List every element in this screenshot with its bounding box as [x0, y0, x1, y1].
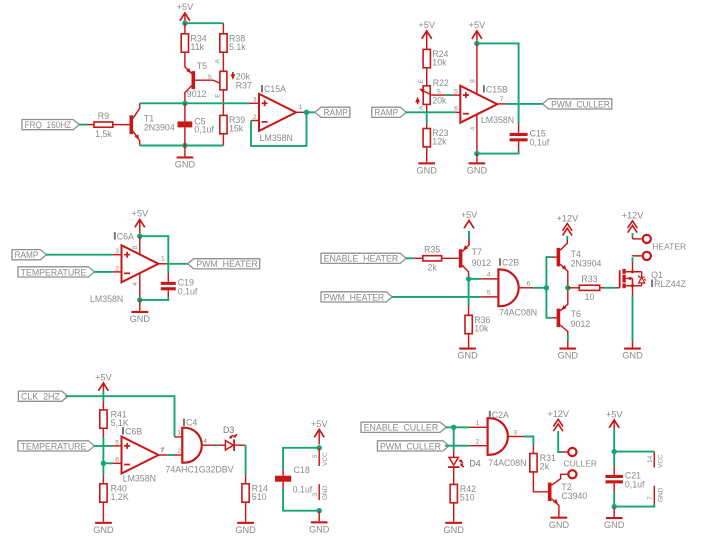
svg-text:7: 7	[160, 448, 164, 455]
wire pin5 net	[446, 94, 452, 96]
wire pin4 lead	[476, 114, 478, 153]
svg-text:20k: 20k	[432, 96, 447, 106]
wire pin6 lead IC6B	[113, 462, 122, 464]
wire pin4 lead IC2B	[481, 278, 498, 280]
transistor T2 body	[548, 483, 558, 505]
wire +12V to CULLER	[558, 431, 562, 452]
svg-text:10k: 10k	[432, 58, 447, 68]
junction gate out	[544, 285, 549, 290]
svg-text:FRQ_160HZ: FRQ_160HZ	[25, 120, 72, 130]
svg-text:9012: 9012	[472, 258, 492, 268]
power +5V (block1)	[177, 2, 194, 21]
wire D3 cathode lead	[235, 444, 246, 446]
power +12V (HEATER)	[622, 211, 645, 233]
wire GND lead (IC15B)	[476, 154, 478, 163]
wire C5 bottom lead	[184, 127, 186, 145]
svg-text:GND: GND	[443, 525, 464, 535]
wire C15 top lead	[518, 124, 520, 133]
wire T5 collector	[185, 86, 192, 104]
label IC4	[183, 418, 197, 428]
ground (R23)	[416, 162, 437, 175]
net flag PWM_CULLER (out)	[543, 99, 612, 110]
wire +12V to HEATER	[632, 233, 634, 237]
svg-text:1: 1	[177, 430, 181, 437]
svg-text:S: S	[208, 74, 213, 81]
wire GND lead (block1)	[184, 146, 186, 157]
svg-text:C18: C18	[294, 465, 310, 475]
wire Q1 gate lead	[616, 287, 620, 289]
wire wiper to pin5	[432, 94, 446, 96]
svg-text:+5V: +5V	[131, 209, 148, 219]
wire C19 top lead	[167, 273, 169, 282]
junction D4 branch	[451, 425, 456, 430]
wire divider to pin6	[103, 462, 112, 464]
resistor R40	[100, 483, 129, 502]
wire R33 right lead	[600, 287, 604, 289]
wire gnd lead (C21)	[613, 507, 615, 517]
wire GND lead (IC6A)	[139, 300, 141, 311]
connector HEATER pin 2	[643, 252, 651, 260]
wire pin2 lead IC6A	[112, 271, 121, 273]
svg-text:PWM_HEATER: PWM_HEATER	[324, 292, 385, 302]
power +12V (CULLER)	[547, 409, 570, 431]
wire Q1 source down	[632, 286, 634, 297]
wire T2 collector	[552, 474, 568, 485]
wire C19 to gnd	[140, 297, 169, 300]
svg-text:510: 510	[460, 493, 475, 503]
wire gate to D3	[215, 444, 218, 446]
svg-text:4: 4	[469, 127, 476, 131]
wire FRQ to R9	[79, 124, 88, 126]
svg-text:2: 2	[177, 448, 181, 455]
label IC15A	[261, 84, 286, 94]
wire R24 to R22	[426, 68, 428, 86]
wire RAMP to pin3	[46, 254, 113, 256]
wire pin5 lead IC2B	[481, 296, 498, 298]
resistor R38	[220, 33, 246, 52]
wire R36 top lead	[468, 306, 470, 315]
svg-text:GND: GND	[130, 314, 151, 324]
wire gnd bottom rail	[140, 145, 224, 147]
net flag RAMP (out)	[315, 107, 350, 118]
ground (IC6A)	[130, 311, 151, 324]
svg-text:5: 5	[487, 290, 491, 297]
ground (R42)	[443, 522, 464, 535]
wire T7 emitter	[462, 231, 469, 252]
junction gnd-C5	[182, 143, 187, 148]
svg-text:C2B: C2B	[502, 258, 519, 268]
wire T4 base lead	[552, 256, 557, 258]
capacitor C15	[510, 129, 550, 148]
wire to T6 base	[546, 288, 551, 318]
LED D3	[225, 434, 237, 451]
wire +5V to C19	[140, 236, 169, 272]
svg-text:12k: 12k	[432, 137, 447, 147]
svg-text:R37: R37	[236, 81, 252, 91]
resistor R42	[450, 484, 476, 503]
svg-text:GND: GND	[235, 525, 256, 535]
wire R35 to T7 base	[442, 257, 459, 259]
junction VCC C21	[612, 449, 617, 454]
svg-text:+5V: +5V	[469, 20, 486, 30]
svg-text:6: 6	[115, 457, 119, 464]
wire +5V to C15	[477, 43, 519, 123]
wire pin1 lead IC2A	[469, 426, 487, 428]
svg-text:LM358N: LM358N	[123, 474, 156, 484]
ground (T2)	[549, 517, 570, 530]
wire ramp top rail	[140, 102, 250, 104]
wire pin7 out	[497, 103, 507, 105]
svg-text:ENABLE_CULLER: ENABLE_CULLER	[364, 423, 439, 433]
wire C18 top lead	[282, 470, 284, 476]
wire R34 top lead	[184, 23, 186, 34]
net flag RAMP (IC6A)	[12, 250, 46, 261]
svg-text:RAMP: RAMP	[15, 250, 39, 260]
svg-text:RAMP: RAMP	[324, 108, 348, 118]
svg-text:C4: C4	[186, 418, 197, 428]
wire pin7 out IC6B	[159, 454, 168, 456]
wire +5V to R41 (stub)	[102, 383, 104, 391]
svg-text:GND: GND	[416, 166, 437, 176]
wire pin2 lead IC2A	[469, 445, 487, 447]
svg-text:4: 4	[132, 282, 139, 286]
connector HEATER pin 1	[643, 235, 651, 243]
svg-text:A: A	[215, 59, 222, 64]
resistor R36	[465, 315, 490, 334]
wire CULLER pin1 lead	[562, 451, 568, 453]
wire R22 to R23 (upper)	[426, 104, 428, 112]
wire pin1 lead IC4	[175, 436, 183, 438]
connector CULLER pin 2	[568, 470, 576, 478]
wire +12V net (T4)	[566, 236, 568, 240]
wire R23 top lead	[426, 124, 428, 129]
wire Q1 drain up	[632, 262, 634, 272]
svg-text:+5V: +5V	[461, 210, 478, 220]
wire pin4 out IC4	[203, 444, 215, 446]
svg-text:GND: GND	[175, 160, 196, 170]
resistor R33	[579, 274, 599, 302]
svg-text:74AC08N: 74AC08N	[488, 458, 526, 468]
svg-text:PWM_CULLER: PWM_CULLER	[551, 99, 610, 109]
wire pin5 lead IC6B	[113, 445, 122, 447]
wire R14 to GND	[245, 502, 247, 522]
wire TEMPERATURE to pin5	[94, 445, 113, 447]
svg-text:14: 14	[647, 455, 654, 463]
wire D3 anode lead	[217, 444, 225, 446]
svg-text:510: 510	[252, 492, 267, 502]
wire Q1 gnd stub	[632, 341, 634, 348]
svg-text:3: 3	[312, 493, 319, 497]
wire +5V lead (IC15B)	[476, 31, 478, 41]
AND gate IC2B	[498, 270, 518, 307]
wire T5 emitter lead	[185, 52, 192, 73]
ground (T6)	[558, 348, 579, 361]
net flag RAMP (in)	[372, 107, 406, 118]
arrow R22 indicator	[415, 97, 420, 105]
transistor T1 body	[130, 115, 140, 140]
resistor R31	[530, 453, 556, 472]
svg-text:GND: GND	[604, 520, 625, 530]
wire pin6 out IC2B	[519, 287, 533, 289]
net flag TEMPERATURE (IC6A)	[18, 267, 94, 278]
net flag PWM_HEATER (in)	[321, 292, 392, 303]
wire out to RAMP flag	[307, 111, 315, 113]
label IC15B	[483, 84, 508, 94]
svg-text:Q1: Q1	[651, 270, 663, 280]
net flag PWM_CULLER (in)	[377, 441, 449, 452]
wire D4 anode lead	[453, 450, 455, 457]
wire +5V lead (C18)	[318, 430, 320, 445]
svg-text:CLK_2HZ: CLK_2HZ	[21, 392, 60, 402]
svg-text:74AC08N: 74AC08N	[499, 308, 537, 318]
svg-text:GND: GND	[322, 485, 329, 500]
transistor T7 body	[459, 245, 468, 267]
svg-text:2k: 2k	[428, 263, 438, 273]
svg-text:C15A: C15A	[264, 84, 286, 94]
wire R41 top lead	[102, 401, 104, 410]
svg-text:RAMP: RAMP	[374, 108, 398, 118]
wire R37 bottom to R39	[222, 90, 224, 116]
junction GND C21	[612, 504, 617, 509]
svg-text:+5V: +5V	[606, 410, 623, 420]
wire pin1 out IC6A	[159, 263, 169, 265]
capacitor C18	[275, 476, 291, 482]
potentiometer R37 body	[220, 71, 227, 90]
svg-text:C6B: C6B	[125, 426, 142, 436]
wire R35 left lead	[414, 257, 422, 259]
wire R41 bottom lead	[102, 428, 104, 437]
svg-text:+5V: +5V	[95, 373, 112, 383]
ground (C18)	[309, 521, 330, 534]
net flag ENABLE_CULLER	[361, 422, 446, 433]
wire PWM_HEATER to pin5	[392, 296, 482, 298]
svg-text:+5V: +5V	[311, 419, 328, 429]
svg-text:T4: T4	[571, 249, 581, 259]
junction T4-T6-R33	[565, 285, 570, 290]
wire gate out net	[533, 287, 546, 289]
ground (R40)	[93, 522, 114, 535]
svg-text:ENABLE_HEATER: ENABLE_HEATER	[324, 254, 399, 264]
capacitor C21	[606, 471, 646, 490]
wire +5V-R41 net	[102, 391, 104, 402]
ground (IC15B)	[467, 162, 488, 175]
wire D4 cathode lead	[453, 468, 455, 484]
capacitor C5	[178, 121, 193, 127]
wire feedback IC15A	[251, 112, 307, 146]
ground (C21)	[604, 517, 625, 530]
OR gate IC4 (74AHC1G32)	[182, 428, 202, 463]
svg-text:0,1uf: 0,1uf	[625, 480, 645, 490]
svg-text:+12V: +12V	[622, 211, 645, 221]
junction GND C18	[317, 508, 322, 513]
capacitor C19	[161, 277, 198, 296]
transistor T5 body	[186, 68, 195, 89]
svg-text:C15B: C15B	[486, 84, 508, 94]
svg-text:+12V: +12V	[556, 213, 579, 223]
svg-text:LM358N: LM358N	[90, 294, 123, 304]
wire PWM_CULLER to pin2	[445, 445, 470, 447]
svg-text:4: 4	[203, 438, 207, 445]
resistor R9	[94, 111, 113, 139]
svg-text:GND: GND	[549, 520, 570, 530]
op-amp IC6A	[115, 245, 165, 282]
wire +12V stub	[632, 237, 634, 239]
wire R31 top lead	[532, 446, 534, 454]
svg-text:A: A	[418, 105, 425, 110]
resistor R41	[100, 410, 129, 429]
svg-text:5: 5	[312, 454, 319, 458]
svg-text:0,1uf: 0,1uf	[178, 286, 198, 296]
svg-text:D4: D4	[469, 458, 480, 468]
wire C15 bottom lead	[518, 141, 520, 150]
svg-text:6: 6	[454, 106, 458, 113]
potentiometer R22 body	[423, 86, 430, 105]
power +5V (T7)	[461, 210, 478, 228]
resistor R35	[423, 245, 442, 273]
wire R22 wiper	[420, 89, 431, 95]
wire out net IC6B	[168, 454, 174, 456]
wire T5 base to R37 wiper	[195, 80, 227, 86]
wire to gate pin4	[469, 278, 482, 280]
wire IC2 VCC stub	[653, 452, 655, 468]
wire R31 to T2 base	[533, 472, 548, 492]
junction VCC C18	[317, 445, 322, 450]
wire C21 top lead	[613, 466, 615, 475]
wire R39 bottom lead	[222, 134, 224, 146]
svg-text:3: 3	[513, 429, 517, 436]
wire GND stub net (C21)	[614, 504, 654, 507]
label IC2B	[499, 258, 519, 268]
wire T6 base lead	[552, 317, 557, 319]
svg-text:0,1uf: 0,1uf	[194, 124, 214, 134]
svg-text:8: 8	[469, 79, 476, 83]
wire ENABLE to R35	[406, 257, 415, 259]
junction +5V node	[182, 21, 187, 26]
AND gate IC2A	[488, 418, 508, 455]
op-amp IC6B	[115, 437, 165, 474]
wire C5 top lead	[184, 103, 186, 121]
op-amp IC15A	[253, 94, 303, 131]
wire to HEATER pin2	[633, 255, 642, 257]
power +5V (C21)	[606, 410, 623, 428]
net flag PWM_HEATER (out)	[188, 259, 260, 270]
junction T7 collector	[466, 276, 471, 281]
transistor T6 body	[557, 305, 567, 327]
wire T6 collector	[560, 325, 568, 337]
wire CLK_2HZ to IC4 pin1	[66, 396, 175, 437]
wire +5V net (C21)	[613, 429, 615, 452]
resistor R34	[181, 33, 207, 52]
wire D4 branch	[453, 427, 455, 450]
junction RAMP out	[304, 110, 309, 115]
svg-text:T5: T5	[197, 61, 207, 71]
wire C18 bottom lead	[282, 482, 284, 488]
junction +5V IC6A	[137, 234, 142, 239]
svg-text:GND: GND	[622, 351, 643, 361]
svg-text:GND: GND	[657, 487, 664, 502]
wire C19 bottom lead	[167, 290, 169, 300]
junction ramp-C5	[182, 101, 187, 106]
wire pin5 lead	[452, 94, 460, 96]
wire R42 to GND	[453, 503, 455, 522]
wire R33 left lead	[568, 287, 580, 289]
wire R38 top lead	[222, 23, 224, 34]
label IC6B	[122, 426, 142, 436]
wire emitter stub	[468, 239, 470, 245]
net flag ENABLE_HEATER	[321, 253, 406, 264]
svg-text:5: 5	[115, 439, 119, 446]
wire D3 to R14	[245, 445, 247, 474]
svg-text:R22: R22	[433, 78, 449, 88]
wire +5V lead (C21)	[613, 420, 615, 429]
power +5V (R24)	[418, 20, 435, 39]
junction divider-pin6	[101, 461, 106, 466]
svg-text:7: 7	[500, 96, 504, 103]
wire +5V to R38	[185, 22, 224, 24]
net flag TEMPERATURE (IC6B)	[18, 441, 94, 452]
wire pin6 lead	[456, 111, 461, 113]
svg-text:7: 7	[647, 496, 654, 500]
wire +5V lead (IC6A)	[139, 220, 141, 234]
svg-text:TEMPERATURE: TEMPERATURE	[21, 441, 87, 451]
svg-text:2: 2	[115, 265, 119, 272]
svg-text:+12V: +12V	[547, 409, 570, 419]
svg-text:9012: 9012	[187, 89, 207, 99]
wire gnd lead (C18)	[318, 511, 320, 522]
resistor R39	[220, 115, 245, 134]
svg-text:E: E	[418, 78, 425, 83]
svg-text:4: 4	[487, 272, 491, 279]
wire ENABLE_CULLER to pin1	[446, 426, 470, 428]
svg-text:2: 2	[476, 438, 480, 445]
power +5V (IC15B)	[469, 20, 486, 39]
LED D4	[448, 457, 464, 468]
resistor R23	[423, 128, 448, 147]
svg-text:8: 8	[132, 246, 139, 250]
wire R9 left lead	[88, 124, 94, 126]
svg-text:1,2K: 1,2K	[111, 492, 129, 502]
svg-text:1,5k: 1,5k	[95, 129, 112, 139]
wire source to GND	[632, 296, 634, 341]
arrow R37 20k indicator	[231, 72, 236, 80]
wire out to PWM_CULLER	[507, 103, 543, 105]
wire pin3 lead IC15A	[250, 102, 260, 104]
svg-text:R35: R35	[424, 245, 440, 255]
svg-text:+5V: +5V	[418, 20, 435, 30]
label Q1 value	[651, 279, 686, 289]
junction gnd IC15B	[474, 151, 479, 156]
svg-text:1: 1	[476, 420, 480, 427]
wire RAMP to pin6	[405, 111, 456, 113]
svg-text:RLZ44Z: RLZ44Z	[654, 279, 686, 289]
svg-text:2: 2	[253, 114, 257, 121]
svg-text:6: 6	[527, 280, 531, 287]
svg-text:5: 5	[454, 89, 458, 96]
wire IC4 VCC stub	[318, 448, 320, 466]
wire pin8 lead IC6A	[139, 236, 141, 254]
svg-text:3: 3	[115, 248, 119, 255]
svg-text:TEMPERATURE: TEMPERATURE	[21, 267, 87, 277]
svg-text:C6A: C6A	[117, 231, 134, 241]
svg-text:VCC: VCC	[322, 452, 329, 466]
svg-text:R33: R33	[581, 274, 597, 284]
svg-text:74AHC1G32DBV: 74AHC1G32DBV	[166, 464, 234, 474]
svg-text:5.1k: 5.1k	[229, 42, 246, 52]
wire pin2 lead IC15A	[251, 120, 259, 122]
wire divider net	[102, 438, 104, 475]
wire R40 to GND	[102, 502, 104, 522]
transistor Q1 (IRLZ44Z MOSFET)	[620, 269, 646, 288]
